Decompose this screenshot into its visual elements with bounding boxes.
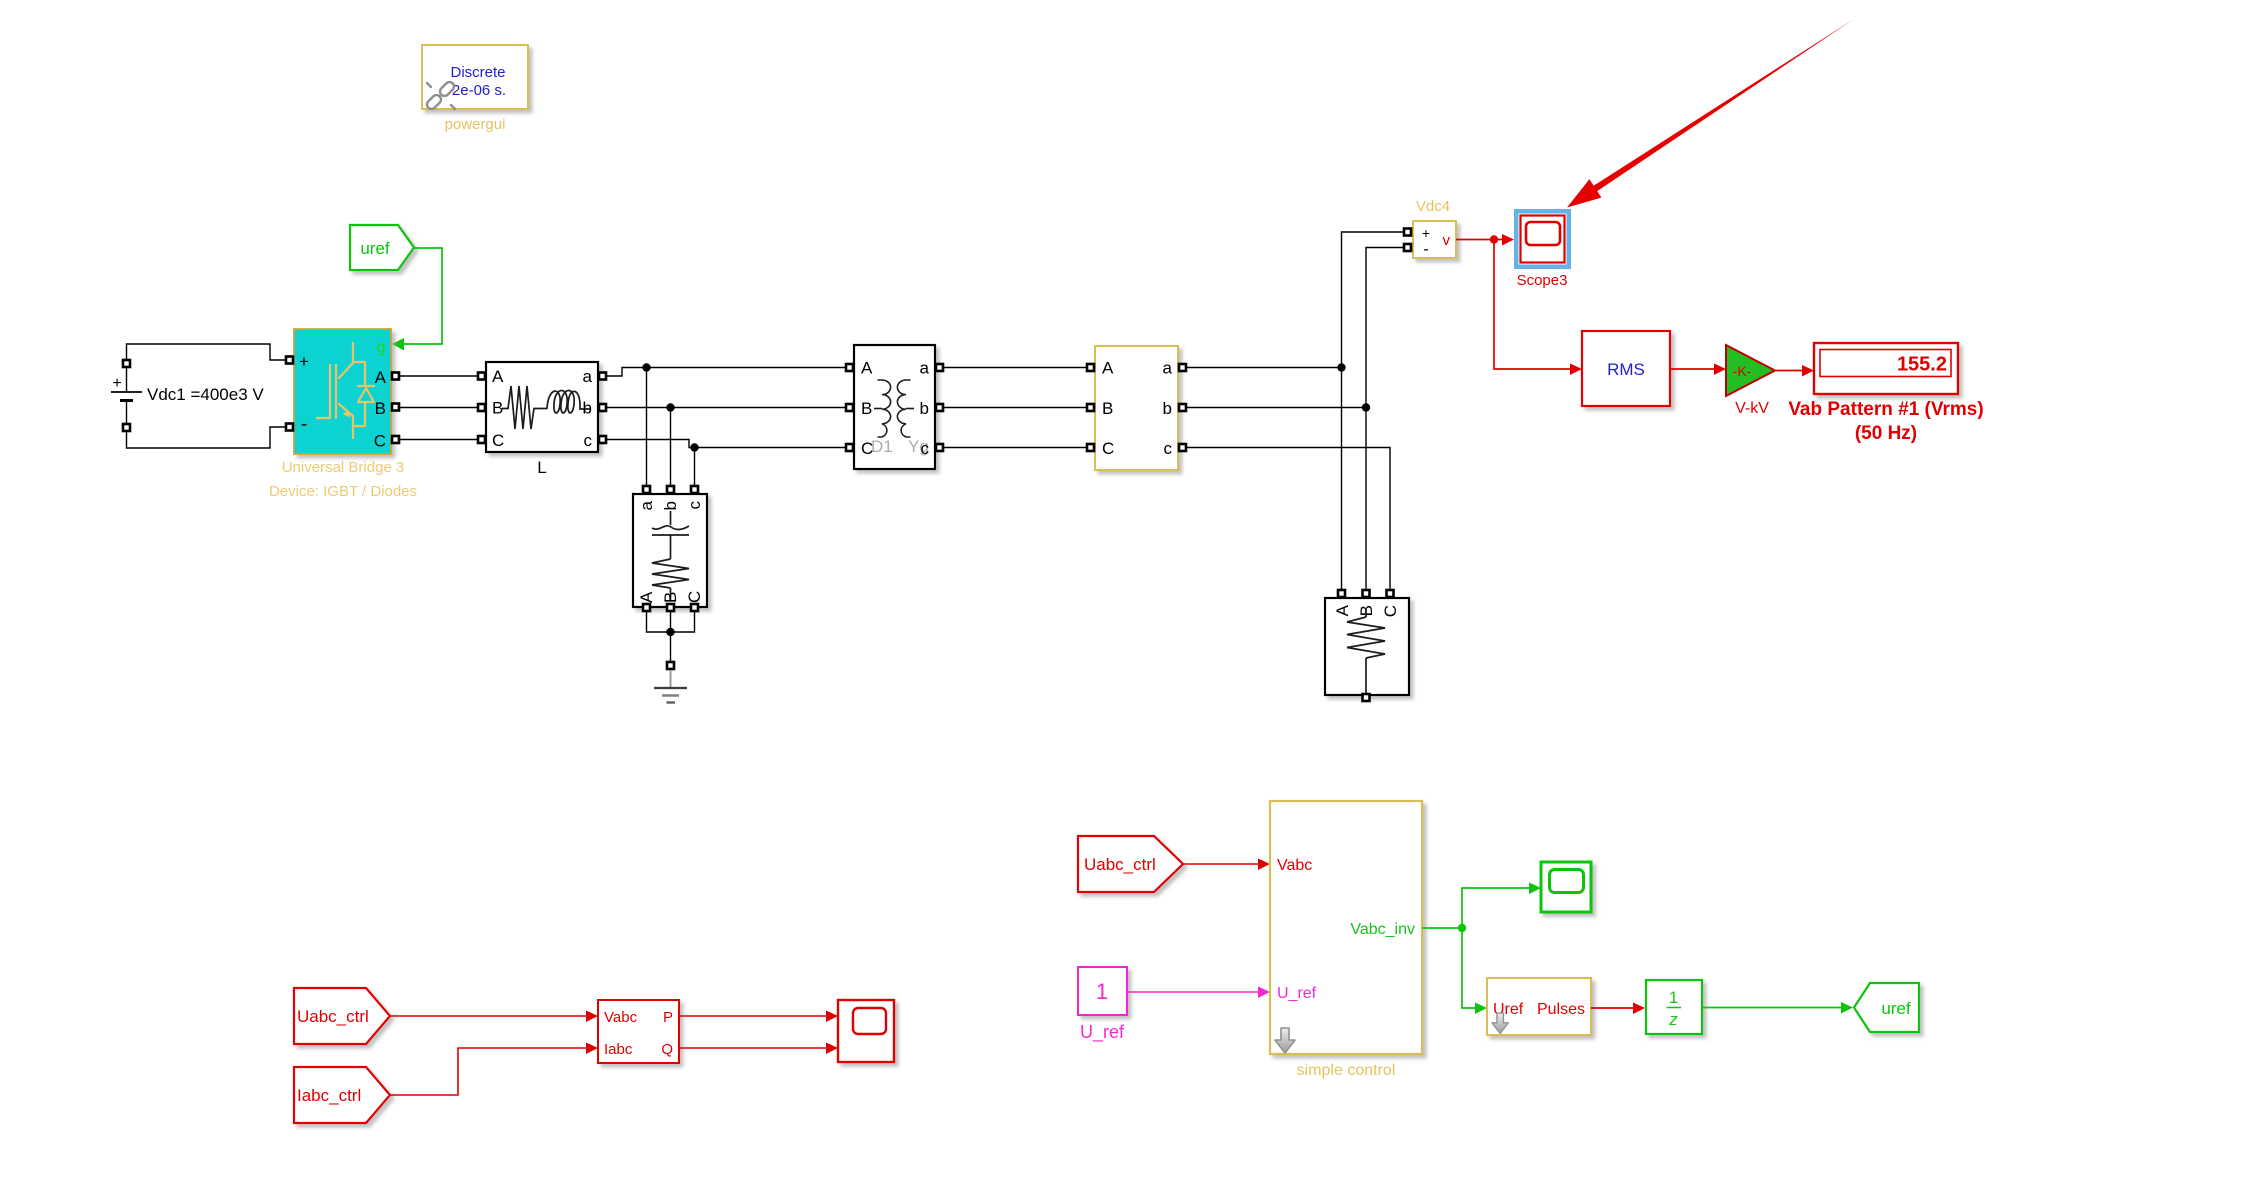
svg-text:Vabc: Vabc [604, 1009, 638, 1026]
three-phase RC load block (rotated) [633, 494, 707, 607]
powergui broken-link icon [425, 80, 456, 111]
svg-text:A: A [1102, 359, 1114, 378]
ground port square [667, 662, 674, 669]
svg-text:Discrete: Discrete [450, 64, 505, 81]
pulses block variant arrow icon [1492, 1013, 1508, 1034]
wire Uabc_ctrl to Vabc [390, 1015, 586, 1017]
gain V-kV [1726, 345, 1775, 396]
ground symbol [670, 670, 672, 688]
svg-text:Vdc4: Vdc4 [1416, 198, 1450, 215]
junction node b2 [1362, 403, 1370, 411]
svg-text:uref: uref [360, 239, 390, 258]
junction node phase c [690, 443, 698, 451]
svg-text:Vdc1 =400e3 V: Vdc1 =400e3 V [147, 385, 264, 404]
display block [1814, 343, 1958, 394]
svg-text:uref: uref [1881, 999, 1911, 1018]
svg-text:-K-: -K- [1733, 363, 1752, 379]
neutral junction [666, 628, 674, 636]
PQ scope block [838, 1000, 894, 1062]
svg-text:c: c [1164, 439, 1173, 458]
wire Uabc_ctrl to simple control Vabc [1183, 863, 1258, 865]
L block (series RL branch) [486, 362, 598, 452]
svg-text:A: A [637, 591, 656, 603]
wire P to scope [679, 1015, 826, 1017]
svg-text:simple control: simple control [1297, 1062, 1396, 1079]
transformer windings [874, 380, 914, 437]
Vdc1 port squares [123, 360, 130, 367]
red annotation arrow [1567, 19, 1854, 208]
bridge IGBT/diode icon [317, 343, 374, 438]
from tag Uabc_ctrl (bottom right) [1078, 836, 1183, 892]
svg-text:2e-06 s.: 2e-06 s. [452, 82, 506, 99]
svg-text:b: b [583, 399, 592, 418]
wire bridge B to L B [400, 407, 477, 409]
simple control subsystem [1270, 801, 1422, 1054]
L block icon (resistor + inductor) [502, 386, 591, 429]
wire Iabc_ctrl to Iabc [390, 1048, 586, 1095]
red wire Vdc4 v to Scope3 [1456, 239, 1502, 241]
svg-text:a: a [637, 500, 656, 510]
svg-text:Vabc: Vabc [1277, 857, 1312, 874]
svg-text:A: A [375, 368, 387, 387]
wire drop c to load1 [694, 448, 696, 486]
svg-text:C: C [374, 432, 386, 451]
svg-text:Device: IGBT / Diodes: Device: IGBT / Diodes [269, 483, 417, 500]
red wire down to RMS [1494, 240, 1570, 370]
wire RMS to gain [1670, 368, 1714, 370]
svg-text:B: B [492, 399, 503, 418]
svg-text:Uabc_ctrl: Uabc_ctrl [1084, 855, 1156, 874]
measurement port squares [1087, 364, 1094, 371]
svg-text:155.2: 155.2 [1897, 354, 1947, 376]
svg-text:RMS: RMS [1607, 360, 1645, 379]
svg-text:B: B [861, 399, 872, 418]
load1 top port squares [643, 486, 650, 493]
transformer D1 Yg block [854, 345, 935, 469]
wire transformer b to measurement B [944, 407, 1086, 409]
goto tag uref (bottom right) [1854, 983, 1919, 1032]
svg-text:Vabc_inv: Vabc_inv [1350, 921, 1415, 938]
junction node phase a [642, 363, 650, 371]
svg-text:P: P [663, 1009, 673, 1026]
load1 bottom port squares [643, 604, 650, 611]
wire L c to transformer C [607, 440, 845, 448]
svg-text:+: + [299, 352, 309, 371]
wire L a to transformer A [607, 368, 845, 377]
svg-text:C: C [685, 591, 704, 603]
svg-text:Universal Bridge 3: Universal Bridge 3 [282, 459, 405, 476]
svg-text:C: C [492, 431, 504, 450]
constant U_ref [1078, 967, 1127, 1015]
three-phase resistive load block (rotated) [1325, 598, 1409, 695]
svg-text:(50 Hz): (50 Hz) [1855, 423, 1917, 444]
bridge port squares [286, 357, 293, 364]
svg-text:Pulses: Pulses [1537, 1001, 1585, 1018]
svg-text:g: g [377, 339, 386, 356]
Universal Bridge 3 block [294, 329, 391, 454]
wire transformer c to measurement C [944, 447, 1086, 449]
svg-text:A: A [1333, 604, 1352, 616]
svg-text:Vab Pattern #1 (Vrms): Vab Pattern #1 (Vrms) [1788, 399, 1983, 420]
svg-text:a: a [920, 359, 930, 378]
from tag Uabc_ctrl (bottom left) [294, 988, 390, 1044]
svg-text:D1: D1 [871, 437, 893, 456]
svg-text:U_ref: U_ref [1277, 985, 1317, 1002]
load1 icon (capacitor + resistor rotated) [652, 511, 689, 601]
svg-text:Uabc_ctrl: Uabc_ctrl [297, 1007, 369, 1026]
wire measurement a to node / Vdc4 + [1187, 232, 1403, 589]
wires load1 to neutral [647, 612, 695, 661]
wire measurement c to load2 [1187, 448, 1390, 590]
svg-text:a: a [1163, 359, 1173, 378]
transformer port squares [846, 364, 853, 371]
magenta wire constant to U_ref input [1127, 991, 1258, 993]
wire bridge C to L C [400, 439, 477, 441]
junction node phase b [666, 403, 674, 411]
svg-text:B: B [375, 399, 386, 418]
wire drop b to load1 [670, 408, 672, 486]
svg-text:A: A [492, 367, 504, 386]
wire L b to transformer B [607, 407, 845, 409]
svg-text:Iabc_ctrl: Iabc_ctrl [297, 1086, 361, 1105]
wire Q to scope [679, 1047, 826, 1049]
svg-text:+: + [1422, 225, 1430, 241]
wire gain to display [1775, 370, 1802, 372]
svg-text:1: 1 [1669, 988, 1678, 1007]
svg-text:Iabc: Iabc [604, 1041, 633, 1058]
RMS block [1582, 331, 1670, 406]
svg-text:C: C [861, 439, 873, 458]
svg-text:A: A [861, 359, 873, 378]
svg-text:c: c [584, 431, 593, 450]
load2 bottom port square [1363, 694, 1370, 701]
Scope3 block (selected) [1514, 209, 1571, 269]
wire measurement b to node / Vdc4 - [1187, 248, 1403, 590]
wire drop a to load1 [646, 368, 648, 486]
svg-text:U_ref: U_ref [1080, 1022, 1125, 1043]
green junction dot [1458, 924, 1466, 932]
svg-text:B: B [1102, 399, 1113, 418]
green wire Vabc_inv [1422, 888, 1529, 1008]
Uref-Pulses converter block [1487, 978, 1591, 1035]
red junction dot [1490, 235, 1498, 243]
simple control variant arrow icon [1275, 1028, 1295, 1053]
Vdc4 voltage measurement block [1413, 221, 1456, 258]
powergui block [422, 45, 528, 109]
red wire Pulses to unit delay [1591, 1007, 1633, 1009]
svg-text:b: b [1163, 399, 1172, 418]
svg-text:-: - [1423, 241, 1428, 258]
from tag Iabc_ctrl [294, 1067, 390, 1123]
svg-text:V-kV: V-kV [1735, 400, 1769, 417]
svg-text:B: B [661, 592, 680, 603]
svg-text:C: C [1381, 605, 1400, 617]
junction node a2 [1337, 363, 1345, 371]
load2 top port squares [1338, 590, 1345, 597]
three-phase V-I measurement block [1095, 346, 1178, 470]
svg-text:C: C [1102, 439, 1114, 458]
Vdc4 port squares [1404, 229, 1411, 236]
svg-text:b: b [661, 501, 680, 510]
load2 resistor icon [1347, 608, 1385, 693]
svg-text:c: c [685, 501, 704, 510]
green wire unit delay to uref goto [1702, 1007, 1841, 1009]
svg-text:L: L [537, 458, 546, 477]
PQ power measurement block [598, 1000, 679, 1063]
unit delay 1/z block [1646, 980, 1702, 1034]
goto tag uref (top) [350, 225, 414, 270]
svg-text:b: b [920, 399, 929, 418]
svg-text:z: z [1668, 1010, 1678, 1029]
svg-text:c: c [921, 439, 930, 458]
L port squares [478, 373, 485, 380]
svg-text:-: - [301, 414, 307, 435]
svg-text:powergui: powergui [445, 116, 506, 133]
svg-text:a: a [583, 367, 593, 386]
svg-text:v: v [1443, 232, 1451, 249]
svg-text:Scope3: Scope3 [1517, 272, 1568, 289]
wire transformer a to measurement A [944, 367, 1086, 369]
svg-text:Q: Q [661, 1041, 673, 1058]
svg-text:1: 1 [1096, 979, 1108, 1004]
green scope block [1541, 862, 1591, 912]
DC voltage source Vdc1 [111, 344, 285, 448]
wire uref to bridge g [404, 248, 442, 344]
svg-text:+: + [112, 375, 121, 392]
wire bridge A to L A [400, 375, 477, 377]
